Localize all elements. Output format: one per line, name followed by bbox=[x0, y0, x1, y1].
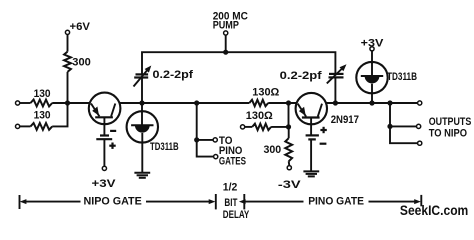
terminal input 2 (bottom left) bbox=[16, 124, 20, 128]
svg-text:TO NIPO: TO NIPO bbox=[429, 128, 468, 140]
svg-text:300: 300 bbox=[264, 144, 282, 156]
svg-text:TD311B: TD311B bbox=[387, 71, 417, 83]
svg-text:300: 300 bbox=[72, 57, 91, 69]
terminal 200 MC pump bbox=[224, 31, 228, 35]
svg-text:PUMP: PUMP bbox=[213, 20, 239, 32]
resistor R6 130ohm bbox=[252, 124, 271, 130]
terminal input 3 bbox=[241, 125, 245, 129]
wire bbox=[271, 126, 288, 128]
wire bbox=[310, 139, 312, 171]
svg-text:130: 130 bbox=[34, 88, 51, 100]
resistor R1 130 bbox=[31, 100, 53, 107]
terminal +3V (left) bbox=[102, 166, 106, 170]
wire bbox=[67, 72, 69, 103]
svg-text:0.2-2pf: 0.2-2pf bbox=[280, 70, 322, 82]
wire bbox=[390, 103, 418, 143]
svg-text:BIT: BIT bbox=[224, 197, 237, 209]
wire bbox=[225, 35, 227, 52]
junction dot pump bbox=[223, 50, 228, 55]
terminal +3V (right) bbox=[370, 47, 374, 51]
resistor R2 130 bbox=[31, 123, 53, 130]
svg-text:NIPO GATE: NIPO GATE bbox=[84, 195, 142, 207]
terminal output 3 bbox=[418, 141, 422, 145]
wire main line right bbox=[327, 102, 418, 104]
wire bbox=[52, 102, 89, 104]
terminal output 2 bbox=[417, 124, 421, 128]
junction dot C (TO PINO branch) bbox=[194, 100, 199, 105]
svg-text:+6V: +6V bbox=[70, 21, 91, 33]
terminal input 1 (top left) bbox=[16, 101, 20, 105]
tunnel diode TD2 TD311B bbox=[356, 62, 387, 93]
svg-text:SeekIC.com: SeekIC.com bbox=[400, 202, 468, 218]
wire bbox=[20, 102, 31, 104]
junction dot H bbox=[369, 100, 374, 105]
wire bbox=[288, 127, 290, 138]
junction dot F bbox=[286, 124, 291, 129]
wire bbox=[334, 77, 336, 103]
wire bbox=[268, 102, 297, 104]
svg-text:GATES: GATES bbox=[219, 156, 246, 168]
svg-text:2N917: 2N917 bbox=[331, 114, 359, 126]
terminal to pino gates 1 bbox=[213, 138, 217, 142]
wire bbox=[20, 125, 31, 127]
wire bbox=[103, 139, 105, 166]
wire bbox=[371, 51, 373, 64]
wire main line (Q1 to Q2) bbox=[120, 102, 249, 104]
terminal +6V bbox=[65, 30, 69, 34]
tunnel diode TD1 TD311B bbox=[127, 111, 158, 142]
wire bbox=[288, 161, 291, 165]
svg-text:+3V: +3V bbox=[361, 37, 384, 49]
junction dot A bbox=[65, 100, 70, 105]
wire bbox=[245, 126, 252, 128]
junction dot E bbox=[286, 100, 291, 105]
terminal output 1 bbox=[418, 101, 422, 105]
junction dot D bbox=[194, 137, 199, 142]
junction dot G bbox=[333, 100, 338, 105]
resistor R7 300 bbox=[285, 138, 292, 161]
svg-text:1/2: 1/2 bbox=[223, 181, 238, 193]
top bus wire bbox=[142, 52, 335, 74]
wire bbox=[288, 103, 290, 127]
wire bbox=[197, 139, 213, 141]
svg-text:PINO GATE: PINO GATE bbox=[308, 195, 364, 207]
svg-text:130Ω: 130Ω bbox=[246, 110, 273, 122]
ground (left) bbox=[134, 173, 150, 178]
ground (right) bbox=[303, 171, 319, 176]
wire bbox=[52, 103, 67, 126]
wire bbox=[197, 103, 214, 157]
svg-text:0.2-2pf: 0.2-2pf bbox=[153, 69, 194, 81]
terminal -3V bbox=[287, 166, 291, 170]
dimension line PINO GATE bbox=[239, 194, 421, 209]
resistor R5 130ohm series bbox=[249, 100, 268, 106]
terminal to pino gates 2 bbox=[214, 155, 218, 159]
transistor Q2 2N917 bbox=[296, 93, 327, 135]
wire bbox=[371, 93, 373, 103]
svg-text:+3V: +3V bbox=[92, 178, 117, 190]
wire bbox=[67, 35, 69, 52]
svg-text:TD311B: TD311B bbox=[150, 141, 179, 153]
junction dot J bbox=[387, 124, 392, 129]
svg-text:-3V: -3V bbox=[278, 179, 302, 191]
capacitor C1 variable 0.2-2pf bbox=[134, 66, 152, 87]
capacitor C2 variable 0.2-2pf bbox=[327, 64, 347, 83]
junction dot I (outputs branch) bbox=[387, 100, 392, 105]
battery B1 (minus top, plus bottom) bbox=[96, 131, 116, 149]
svg-text:130Ω: 130Ω bbox=[252, 86, 279, 98]
svg-text:DELAY: DELAY bbox=[223, 209, 250, 221]
svg-text:OUTPUTS: OUTPUTS bbox=[429, 116, 472, 128]
svg-text:130: 130 bbox=[34, 109, 51, 121]
wire bbox=[141, 78, 143, 126]
resistor R3 300 bbox=[64, 52, 71, 72]
transistor Q1 bbox=[89, 93, 121, 136]
wire bbox=[141, 143, 143, 173]
dimension line NIPO GATE bbox=[20, 194, 216, 209]
junction dot B (cap/TD1) bbox=[139, 100, 144, 105]
wire bbox=[390, 125, 417, 127]
battery B2 (plus top, minus bottom) bbox=[306, 127, 327, 144]
